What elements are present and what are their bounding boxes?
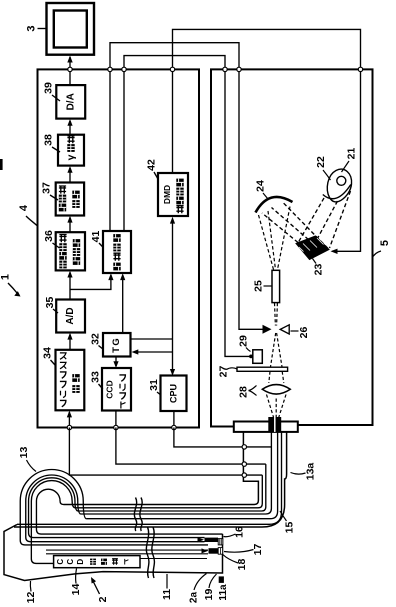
label 42: [146, 159, 159, 179]
feedthrough nodes top edge: [68, 67, 363, 71]
label 17: [224, 544, 264, 556]
svg-text:11: 11: [161, 589, 173, 600]
inner tube lines: [46, 550, 208, 554]
block 33 CCD driver: [102, 368, 131, 411]
label 29: [238, 335, 251, 351]
svg-text:4: 4: [18, 204, 30, 211]
monitor 3: [47, 3, 95, 55]
svg-text:32: 32: [90, 333, 102, 345]
vertical bus 172.5 between 42 and CPU: [172, 224, 174, 373]
connector plug 13a body: [14, 432, 287, 527]
mirror 24: [256, 197, 293, 213]
svg-text:A/D: A/D: [65, 307, 76, 324]
label 4: [18, 204, 38, 226]
connector node wires inside plug: [75, 475, 262, 508]
chain wire 36 to 37: [69, 218, 71, 233]
label 22: [315, 156, 331, 180]
svg-text:D/A: D/A: [65, 93, 76, 110]
block 35 A/D: [56, 300, 85, 333]
svg-text:33: 33: [90, 371, 102, 383]
label 38: [43, 134, 61, 152]
svg-text:13a: 13a: [305, 463, 317, 481]
branch into TG right side: [137, 351, 173, 353]
svg-text:γ: γ: [65, 154, 77, 160]
wire TG out to vertical bus: [131, 338, 173, 340]
label 37: [41, 182, 59, 200]
svg-text:D: D: [76, 559, 85, 565]
svg-text:1: 1: [0, 274, 12, 280]
endoscope body 12 outline: [4, 525, 223, 581]
block 34 preprocess circuit: [56, 350, 85, 411]
svg-text:CPU: CPU: [169, 384, 179, 403]
block 41 light control circuit: [103, 231, 131, 273]
label 18: [223, 555, 248, 571]
chain wire 37 to 38: [69, 168, 71, 183]
iris 26: [263, 325, 272, 334]
block 36 video signal processor: [56, 232, 85, 270]
sensor box 29: [253, 350, 262, 364]
svg-text:13: 13: [18, 447, 30, 459]
label 33: [90, 371, 103, 389]
svg-text:27: 27: [218, 366, 230, 378]
svg-text:24: 24: [255, 180, 267, 192]
svg-text:41: 41: [90, 231, 102, 243]
svg-text:14: 14: [70, 584, 82, 596]
chain wire 35 to 36 with branch to 41: [69, 273, 71, 300]
light guide lines through plug: [81, 432, 272, 514]
wire 33 to bottom edge: [115, 411, 117, 428]
block 38 gamma correction: [58, 135, 84, 166]
label 35: [44, 297, 58, 313]
label 2a: [189, 574, 207, 604]
dashed beam rod to iris: [275, 303, 278, 326]
chain wire 38 to 39: [69, 121, 71, 135]
block 39 D/A: [56, 85, 85, 119]
label 14: [70, 569, 82, 596]
svg-text:36: 36: [43, 230, 55, 242]
light beam dashed rays lamp to DMD: [299, 191, 351, 248]
svg-text:15: 15: [284, 522, 296, 534]
svg-text:C: C: [66, 559, 75, 565]
wire 41 to iris 26: [110, 43, 263, 330]
svg-text:TG: TG: [111, 337, 122, 353]
dashed beam bar to lens: [269, 372, 284, 384]
svg-text:25: 25: [253, 280, 265, 292]
chain wire 34 to 35: [69, 335, 71, 350]
label 2 with arrow: [91, 577, 109, 602]
svg-text:26: 26: [298, 327, 310, 339]
block 42 DMD control circuit: [158, 173, 188, 216]
dashed rays DMD to mirror 24: [262, 203, 328, 249]
feedthrough nodes bottom edge: [67, 425, 176, 429]
extra cable sheath line: [17, 432, 282, 524]
label 5: [373, 240, 392, 257]
distal tip elements: [205, 538, 219, 542]
svg-text:11a: 11a: [218, 584, 229, 601]
svg-text:2: 2: [97, 596, 109, 602]
svg-text:16: 16: [234, 526, 246, 538]
label 24: [255, 180, 269, 199]
svg-text:CCD: CCD: [105, 380, 115, 398]
lens 28: [262, 385, 290, 395]
dashed beam lens to light guide entrance: [267, 395, 287, 418]
tip arrows: [198, 537, 205, 542]
label 39: [43, 82, 61, 101]
wire 29 to 41: [124, 56, 253, 357]
svg-text:38: 38: [43, 134, 55, 146]
label 36: [43, 230, 60, 248]
label 13: [18, 447, 36, 472]
label 31: [148, 379, 161, 395]
dashed beam iris to filter bar: [271, 333, 283, 367]
label 16: [224, 526, 246, 538]
label 15: [280, 511, 296, 533]
label 26: [291, 327, 311, 339]
svg-text:39: 39: [43, 82, 55, 94]
svg-text:31: 31: [148, 379, 160, 391]
wire monitor to D/A: [69, 57, 71, 85]
lamp 21 bulb: [323, 169, 352, 202]
wire 31 to bottom edge: [173, 411, 175, 428]
label 21: [342, 148, 358, 172]
wire TG to 33: [115, 357, 117, 367]
universal cable loop arcs: [20, 470, 222, 564]
label 11a with square mark: [218, 576, 229, 600]
svg-text:35: 35: [44, 297, 56, 309]
connector nodes: [242, 445, 246, 478]
svg-text:DMD: DMD: [162, 185, 172, 204]
wires box4 bottom to connector: [69, 428, 242, 476]
filter bar 27: [237, 367, 288, 371]
label 3: [26, 25, 47, 31]
svg-text:2a: 2a: [189, 592, 200, 604]
svg-text:19: 19: [203, 589, 215, 601]
wire TG to 41: [122, 275, 124, 333]
CCD element box 14: [54, 556, 140, 568]
label 19: [203, 574, 217, 600]
label 28: [238, 386, 257, 398]
block 37 sync circuit: [56, 183, 84, 216]
label 27: [218, 366, 237, 378]
svg-text:3: 3: [26, 25, 38, 31]
DMD 23: [296, 236, 329, 260]
svg-text:28: 28: [238, 386, 250, 398]
label 23: [313, 259, 325, 276]
scan artifact tick left edge: [0, 159, 3, 170]
light guide entrance block: [268, 417, 281, 432]
svg-text:18: 18: [236, 559, 248, 571]
wire 42 to DMD over top: [173, 29, 361, 251]
svg-text:29: 29: [238, 335, 250, 347]
label 11: [161, 574, 173, 600]
label 32: [90, 333, 103, 349]
svg-text:17: 17: [252, 544, 264, 556]
wire bottom edge to 34: [68, 412, 70, 428]
label 25: [253, 280, 273, 292]
svg-text:12: 12: [25, 592, 37, 604]
svg-text:22: 22: [315, 156, 327, 168]
label 34: [42, 347, 56, 365]
svg-text:21: 21: [346, 148, 358, 160]
label 12: [25, 581, 37, 603]
svg-text:42: 42: [146, 159, 158, 171]
svg-text:23: 23: [313, 264, 325, 276]
svg-text:5: 5: [379, 240, 391, 246]
block 32 TG: [103, 333, 131, 357]
light source box 5: [211, 69, 373, 426]
socket bar on box 5 bottom: [234, 422, 298, 432]
rod integrator 25: [272, 270, 280, 302]
wavy break mark on cable: [134, 498, 142, 532]
svg-text:37: 37: [41, 182, 53, 194]
processor box 4: [38, 69, 200, 427]
wavy break mark on tube: [146, 527, 154, 578]
dashed rays mirror to rod 25: [259, 207, 291, 270]
label 1: [0, 274, 21, 297]
block 31 CPU: [161, 376, 187, 412]
svg-text:C: C: [56, 559, 65, 565]
label 41: [90, 231, 103, 247]
svg-text:34: 34: [42, 347, 54, 359]
label 13a: [291, 463, 317, 481]
